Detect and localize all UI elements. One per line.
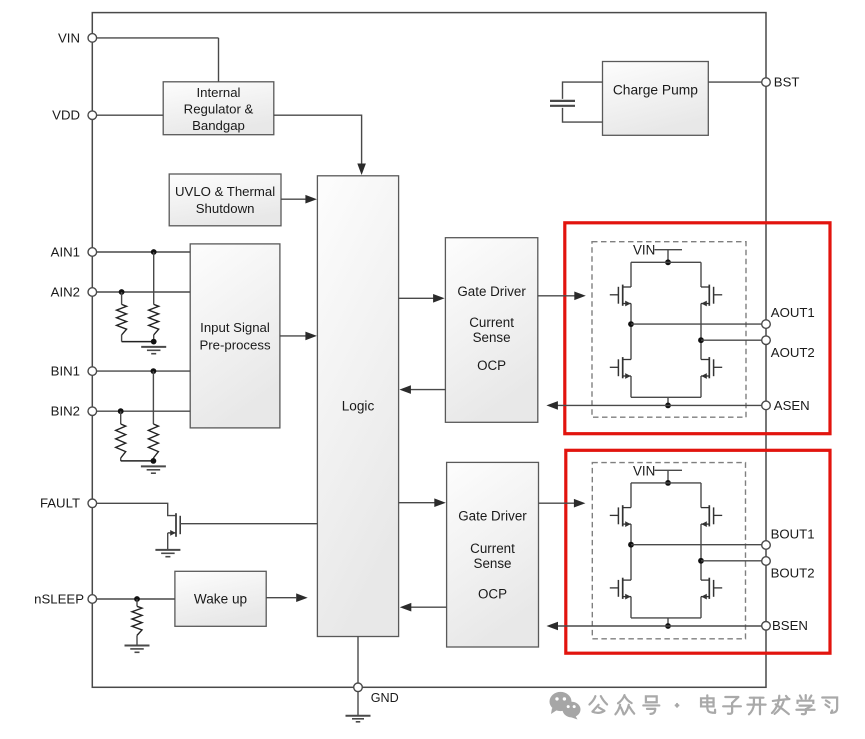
svg-text:BOUT2: BOUT2 [771, 565, 815, 580]
svg-text:AOUT2: AOUT2 [771, 345, 815, 360]
svg-text:UVLO & Thermal: UVLO & Thermal [175, 184, 275, 199]
svg-text:Bandgap: Bandgap [192, 118, 245, 133]
svg-text:VDD: VDD [52, 108, 80, 123]
svg-text:AOUT1: AOUT1 [771, 305, 815, 320]
svg-text:OCP: OCP [478, 586, 507, 601]
svg-text:AIN1: AIN1 [51, 244, 80, 259]
svg-text:Wake up: Wake up [194, 592, 247, 607]
svg-text:Gate Driver: Gate Driver [457, 284, 526, 299]
svg-text:Input Signal: Input Signal [200, 320, 270, 335]
svg-text:AIN2: AIN2 [51, 284, 80, 299]
svg-text:BST: BST [774, 75, 800, 90]
svg-text:VIN: VIN [633, 463, 655, 478]
svg-text:Gate Driver: Gate Driver [458, 509, 527, 524]
svg-text:GND: GND [371, 691, 399, 705]
svg-text:Pre-process: Pre-process [199, 338, 270, 353]
svg-text:BIN1: BIN1 [51, 364, 80, 379]
svg-text:VIN: VIN [633, 243, 655, 258]
svg-text:BSEN: BSEN [772, 618, 808, 633]
svg-text:Current: Current [469, 315, 514, 330]
svg-text:FAULT: FAULT [40, 496, 80, 511]
svg-text:Sense: Sense [474, 556, 512, 571]
svg-text:BIN2: BIN2 [51, 404, 80, 419]
svg-text:Shutdown: Shutdown [196, 201, 255, 216]
svg-text:Current: Current [470, 541, 515, 556]
svg-text:Internal: Internal [197, 85, 241, 100]
svg-text:VIN: VIN [58, 30, 80, 45]
svg-text:OCP: OCP [477, 358, 506, 373]
svg-text:BOUT1: BOUT1 [771, 526, 815, 541]
svg-text:Charge Pump: Charge Pump [613, 83, 698, 98]
svg-text:nSLEEP: nSLEEP [34, 591, 84, 606]
svg-text:Logic: Logic [342, 399, 375, 414]
svg-text:Regulator &: Regulator & [184, 102, 254, 117]
svg-text:ASEN: ASEN [774, 398, 810, 413]
svg-text:Sense: Sense [473, 330, 511, 345]
